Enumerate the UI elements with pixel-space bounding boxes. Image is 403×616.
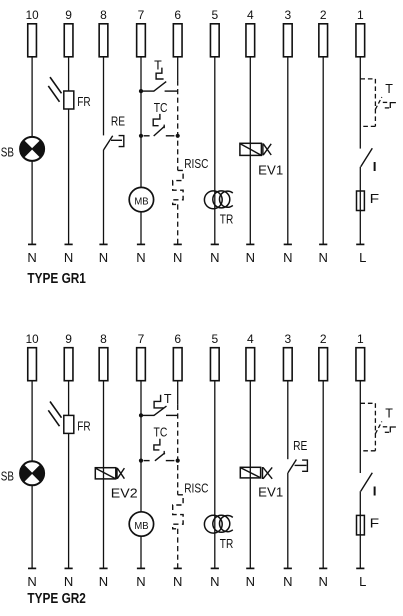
svg-text:N: N — [319, 574, 328, 589]
label TR (TYPE GR1) — [220, 211, 234, 226]
title TYPE GR1 — [27, 270, 86, 287]
svg-text:7: 7 — [138, 8, 145, 22]
net label N line 8 (TYPE GR2) — [99, 574, 108, 589]
terminal pin label 3 (TYPE GR1) — [284, 8, 291, 22]
net label N line 4 (TYPE GR1) — [246, 250, 255, 265]
net label N line 3 (TYPE GR2) — [283, 574, 292, 589]
svg-text:TYPE GR2: TYPE GR2 — [27, 590, 86, 607]
terminal pin label 4 (TYPE GR1) — [247, 8, 254, 22]
svg-text:MB: MB — [134, 520, 148, 532]
svg-text:N: N — [173, 250, 182, 265]
terminal block 10 (TYPE GR1) — [28, 24, 37, 57]
svg-text:N: N — [136, 574, 145, 589]
svg-text:L: L — [359, 574, 366, 589]
svg-text:N: N — [27, 574, 36, 589]
wire line 1 lower (TYPE GR2) — [359, 491, 361, 568]
svg-text:TR: TR — [220, 536, 234, 551]
svg-text:F: F — [370, 516, 380, 530]
wire line 7 (TYPE GR2) — [140, 381, 142, 568]
svg-text:3: 3 — [284, 8, 291, 22]
svg-text:N: N — [283, 250, 292, 265]
label SB (TYPE GR1) — [1, 144, 14, 159]
motor MB (TYPE GR1) — [129, 187, 153, 211]
terminal block 5 (TYPE GR1) — [210, 24, 219, 57]
svg-text:4: 4 — [247, 332, 254, 346]
svg-text:FR: FR — [77, 419, 90, 434]
junction dot TC row line7 (TYPE GR1) — [139, 134, 143, 138]
svg-text:RISC: RISC — [184, 480, 208, 495]
svg-text:10: 10 — [26, 8, 39, 22]
bottom terminal tick line 4 (TYPE GR2) — [246, 567, 254, 569]
label TC (TYPE GR2) — [154, 424, 168, 439]
svg-text:RE: RE — [111, 113, 125, 128]
terminal pin label 9 (TYPE GR1) — [65, 8, 72, 22]
net label N line 10 (TYPE GR1) — [27, 250, 36, 265]
terminal block 2 (TYPE GR1) — [319, 24, 328, 57]
transformer TR (TYPE GR2) — [204, 515, 232, 533]
label F (TYPE GR2) — [370, 516, 380, 530]
terminal pin label 7 (TYPE GR1) — [138, 8, 145, 22]
svg-text:N: N — [210, 250, 219, 265]
svg-text:SB: SB — [1, 469, 14, 484]
latch RISC (TYPE GR2) — [173, 495, 183, 529]
label EV2 (TYPE GR2) — [111, 485, 138, 500]
wire line 6 dashed lower (TYPE GR1) — [177, 204, 179, 244]
svg-text:N: N — [64, 250, 73, 265]
terminal pin label 3 (TYPE GR2) — [284, 332, 291, 346]
svg-text:N: N — [283, 574, 292, 589]
net label N line 4 (TYPE GR2) — [246, 574, 255, 589]
terminal pin label 1 (TYPE GR1) — [357, 8, 364, 22]
svg-text:T: T — [385, 82, 393, 96]
svg-text:MB: MB — [134, 195, 148, 207]
terminal pin label 1 (TYPE GR2) — [357, 332, 364, 346]
wire line 3 (TYPE GR1) — [287, 57, 289, 245]
wire line 5 (TYPE GR2) — [214, 381, 216, 568]
bottom terminal tick line 7 (TYPE GR1) — [137, 243, 145, 245]
svg-text:N: N — [99, 574, 108, 589]
bottom terminal tick line 2 (TYPE GR1) — [319, 243, 327, 245]
label RE (TYPE GR2) — [293, 438, 307, 453]
svg-text:3: 3 — [284, 332, 291, 346]
label T timer (TYPE GR1) — [385, 82, 393, 96]
wire line 10 (TYPE GR2) — [31, 381, 33, 568]
wire line 3 lower (TYPE GR2) — [287, 473, 289, 569]
bottom terminal tick line 7 (TYPE GR2) — [137, 567, 145, 569]
svg-text:5: 5 — [211, 332, 218, 346]
label SB (TYPE GR2) — [1, 469, 14, 484]
bottom terminal tick line 5 (TYPE GR1) — [211, 243, 219, 245]
terminal pin label 10 (TYPE GR2) — [26, 332, 39, 346]
label EV1 (TYPE GR1) — [258, 163, 283, 178]
svg-text:N: N — [246, 574, 255, 589]
net label N line 5 (TYPE GR2) — [210, 574, 219, 589]
svg-text:N: N — [210, 574, 219, 589]
contact RE (TYPE GR1) — [104, 136, 124, 150]
net label N line 9 (TYPE GR1) — [64, 250, 73, 265]
label FR (TYPE GR1) — [77, 94, 90, 109]
net label N line 6 (TYPE GR2) — [173, 574, 182, 589]
bottom terminal tick line 6 (TYPE GR1) — [174, 243, 182, 245]
junction dot TC row line6 (TYPE GR2) — [176, 459, 180, 463]
svg-text:2: 2 — [320, 332, 327, 346]
solenoid valve EV1 (TYPE GR1) — [240, 143, 271, 155]
terminal pin label 9 (TYPE GR2) — [65, 332, 72, 346]
svg-text:L: L — [359, 250, 366, 265]
svg-text:RISC: RISC — [184, 156, 208, 171]
net label N line 2 (TYPE GR1) — [319, 250, 328, 265]
svg-text:9: 9 — [65, 332, 72, 346]
svg-text:TC: TC — [154, 100, 168, 115]
label TC (TYPE GR1) — [154, 100, 168, 115]
net label N line 5 (TYPE GR1) — [210, 250, 219, 265]
latch RISC (TYPE GR1) — [173, 170, 183, 204]
svg-text:N: N — [99, 250, 108, 265]
svg-text:I: I — [372, 160, 378, 174]
terminal block 1 (TYPE GR1) — [356, 24, 365, 57]
contact TC line7-line6 (TYPE GR1) — [144, 114, 175, 136]
junction dot TC row line6 (TYPE GR1) — [176, 134, 180, 138]
terminal block 8 (TYPE GR1) — [99, 24, 108, 57]
label RE (TYPE GR1) — [111, 113, 125, 128]
net label N line 7 (TYPE GR1) — [136, 250, 145, 265]
net label N line 2 (TYPE GR2) — [319, 574, 328, 589]
wire line 2 (TYPE GR2) — [322, 381, 324, 568]
fuse F (TYPE GR2) — [357, 515, 365, 535]
terminal block 1 (TYPE GR2) — [356, 348, 365, 381]
svg-text:N: N — [319, 250, 328, 265]
terminal block 4 (TYPE GR2) — [246, 348, 255, 381]
switch I (TYPE GR2) — [361, 473, 373, 492]
photoresistor FR (TYPE GR1) — [48, 77, 74, 109]
terminal pin label 4 (TYPE GR2) — [247, 332, 254, 346]
wire line 8 lower (TYPE GR1) — [103, 150, 105, 245]
terminal block 2 (TYPE GR2) — [319, 348, 328, 381]
wire line 10 (TYPE GR1) — [31, 57, 33, 245]
junction dot T row (TYPE GR2) — [139, 413, 143, 417]
terminal block 6 (TYPE GR2) — [173, 348, 182, 381]
bottom terminal tick line 10 (TYPE GR1) — [28, 243, 36, 245]
label I (TYPE GR2) — [372, 485, 378, 499]
wire line 8 (TYPE GR2) — [103, 381, 105, 568]
svg-text:EV2: EV2 — [111, 485, 138, 500]
wire line 7 (TYPE GR1) — [140, 57, 142, 245]
wire line 4 (TYPE GR2) — [249, 381, 251, 568]
svg-text:T: T — [385, 407, 393, 421]
wire line 9 (TYPE GR2) — [68, 381, 70, 568]
svg-text:TC: TC — [154, 424, 168, 439]
bottom terminal tick line 10 (TYPE GR2) — [28, 567, 36, 569]
svg-text:N: N — [64, 574, 73, 589]
terminal block 3 (TYPE GR2) — [283, 348, 292, 381]
svg-text:5: 5 — [211, 8, 218, 22]
net label N line 8 (TYPE GR1) — [99, 250, 108, 265]
svg-text:FR: FR — [77, 94, 90, 109]
label RISC (TYPE GR2) — [184, 480, 208, 495]
terminal pin label 5 (TYPE GR2) — [211, 332, 218, 346]
bottom terminal tick line 1 (TYPE GR1) — [356, 243, 364, 245]
svg-text:TR: TR — [220, 211, 234, 226]
svg-text:TYPE GR1: TYPE GR1 — [27, 270, 86, 287]
lamp SB (TYPE GR1) — [20, 137, 44, 161]
terminal block 9 (TYPE GR2) — [64, 348, 73, 381]
svg-text:2: 2 — [320, 8, 327, 22]
junction dot T row (TYPE GR1) — [139, 89, 143, 93]
label FR (TYPE GR2) — [77, 419, 90, 434]
wire line 4 (TYPE GR1) — [249, 57, 251, 245]
solenoid valve EV1 (TYPE GR2) — [240, 467, 272, 479]
wire line 9 (TYPE GR1) — [68, 57, 70, 245]
solenoid valve EV2 (TYPE GR2) — [95, 468, 124, 479]
wire line 3 upper (TYPE GR2) — [287, 381, 289, 459]
bottom terminal tick line 3 (TYPE GR2) — [284, 567, 292, 569]
svg-text:7: 7 — [138, 332, 145, 346]
terminal pin label 7 (TYPE GR2) — [138, 332, 145, 346]
svg-text:8: 8 — [100, 332, 107, 346]
wire line 6 solid (TYPE GR1) — [177, 57, 179, 81]
contact RE (TYPE GR2) — [288, 460, 308, 473]
bottom terminal tick line 5 (TYPE GR2) — [211, 567, 219, 569]
terminal block 7 (TYPE GR1) — [137, 24, 146, 57]
terminal pin label 5 (TYPE GR1) — [211, 8, 218, 22]
terminal pin label 10 (TYPE GR1) — [26, 8, 39, 22]
svg-text:6: 6 — [174, 8, 181, 22]
svg-text:T: T — [154, 59, 162, 73]
svg-text:I: I — [372, 485, 378, 499]
net label L line 1 (TYPE GR2) — [359, 574, 366, 589]
lamp SB (TYPE GR2) — [20, 461, 44, 485]
bottom terminal tick line 3 (TYPE GR1) — [284, 243, 292, 245]
svg-text:8: 8 — [100, 8, 107, 22]
bottom terminal tick line 4 (TYPE GR1) — [246, 243, 254, 245]
contact T line7-line6 (TYPE GR2) — [141, 395, 178, 416]
contact T line7-line6 (TYPE GR1) — [141, 68, 178, 92]
svg-text:T: T — [164, 392, 172, 406]
bottom terminal tick line 8 (TYPE GR2) — [99, 567, 107, 569]
label T timer (TYPE GR2) — [385, 407, 393, 421]
label TR (TYPE GR2) — [220, 536, 234, 551]
bottom terminal tick line 9 (TYPE GR1) — [65, 243, 73, 245]
wire line 5 (TYPE GR1) — [214, 57, 216, 245]
label T contact (TYPE GR1) — [154, 59, 162, 73]
svg-text:4: 4 — [247, 8, 254, 22]
title TYPE GR2 — [27, 590, 86, 607]
wire line 6 dashed upper (TYPE GR1) — [177, 80, 179, 170]
svg-text:1: 1 — [357, 332, 364, 346]
svg-text:EV1: EV1 — [258, 484, 283, 499]
net label N line 6 (TYPE GR1) — [173, 250, 182, 265]
wire line 1 upper (TYPE GR2) — [359, 381, 361, 473]
terminal pin label 6 (TYPE GR2) — [174, 332, 181, 346]
wire line 6 solid (TYPE GR2) — [177, 381, 179, 405]
bottom terminal tick line 9 (TYPE GR2) — [65, 567, 73, 569]
terminal block 5 (TYPE GR2) — [210, 348, 219, 381]
wire line 8 upper (TYPE GR1) — [103, 57, 105, 136]
transformer TR (TYPE GR1) — [204, 191, 232, 209]
net label N line 10 (TYPE GR2) — [27, 574, 36, 589]
terminal pin label 6 (TYPE GR1) — [174, 8, 181, 22]
svg-text:N: N — [136, 250, 145, 265]
terminal block 8 (TYPE GR2) — [99, 348, 108, 381]
label EV1 (TYPE GR2) — [258, 484, 283, 499]
net label N line 9 (TYPE GR2) — [64, 574, 73, 589]
motor MB (TYPE GR2) — [129, 512, 153, 536]
wire line 1 lower (TYPE GR1) — [359, 167, 361, 245]
bottom terminal tick line 6 (TYPE GR2) — [174, 567, 182, 569]
label F (TYPE GR1) — [370, 192, 380, 206]
svg-text:F: F — [370, 192, 380, 206]
junction dot TC row line7 (TYPE GR2) — [139, 459, 143, 463]
wire line 6 dashed upper (TYPE GR2) — [177, 405, 179, 495]
wire line 2 (TYPE GR1) — [322, 57, 324, 245]
bottom terminal tick line 8 (TYPE GR1) — [99, 243, 107, 245]
svg-text:N: N — [173, 574, 182, 589]
fuse F (TYPE GR1) — [357, 191, 365, 211]
terminal block 3 (TYPE GR1) — [283, 24, 292, 57]
terminal pin label 2 (TYPE GR2) — [320, 332, 327, 346]
label I (TYPE GR1) — [372, 160, 378, 174]
bottom terminal tick line 2 (TYPE GR2) — [319, 567, 327, 569]
svg-text:9: 9 — [65, 8, 72, 22]
timer contact T branch (TYPE GR2) — [360, 403, 396, 451]
terminal block 9 (TYPE GR1) — [64, 24, 73, 57]
terminal block 7 (TYPE GR2) — [137, 348, 146, 381]
bottom terminal tick line 1 (TYPE GR2) — [356, 567, 364, 569]
terminal block 4 (TYPE GR1) — [246, 24, 255, 57]
svg-text:RE: RE — [293, 438, 307, 453]
svg-text:EV1: EV1 — [258, 163, 283, 178]
net label L line 1 (TYPE GR1) — [359, 250, 366, 265]
label T contact (TYPE GR2) — [164, 392, 172, 406]
switch I (TYPE GR1) — [361, 148, 373, 167]
net label N line 3 (TYPE GR1) — [283, 250, 292, 265]
label RISC (TYPE GR1) — [184, 156, 208, 171]
contact TC line7-line6 (TYPE GR2) — [144, 439, 175, 461]
svg-text:N: N — [27, 250, 36, 265]
svg-text:SB: SB — [1, 144, 14, 159]
terminal pin label 8 (TYPE GR2) — [100, 332, 107, 346]
svg-text:10: 10 — [26, 332, 39, 346]
timer contact T branch (TYPE GR1) — [360, 79, 396, 127]
terminal block 10 (TYPE GR2) — [28, 348, 37, 381]
svg-text:1: 1 — [357, 8, 364, 22]
svg-text:6: 6 — [174, 332, 181, 346]
wire line 6 dashed lower (TYPE GR2) — [177, 529, 179, 569]
net label N line 7 (TYPE GR2) — [136, 574, 145, 589]
svg-text:N: N — [246, 250, 255, 265]
wire line 1 upper (TYPE GR1) — [359, 57, 361, 149]
terminal pin label 2 (TYPE GR1) — [320, 8, 327, 22]
terminal block 6 (TYPE GR1) — [173, 24, 182, 57]
photoresistor FR (TYPE GR2) — [48, 402, 74, 434]
terminal pin label 8 (TYPE GR1) — [100, 8, 107, 22]
